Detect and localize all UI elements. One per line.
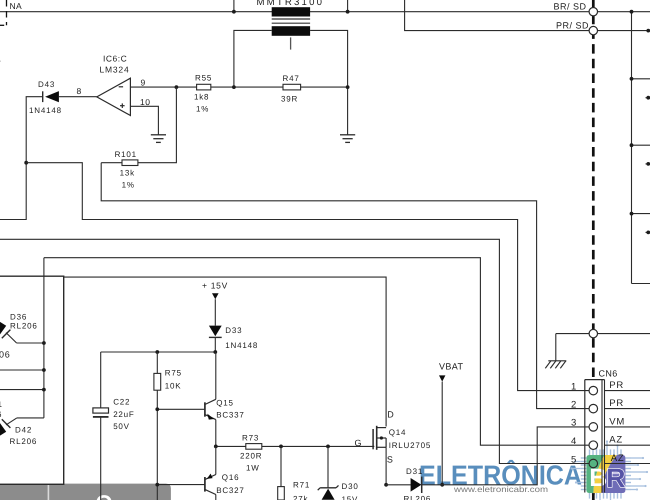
svg-text:10K: 10K bbox=[165, 381, 182, 390]
diode D42 RL206 (diagonal, clipped) bbox=[0, 421, 6, 439]
wire BR/SD horizontal top bbox=[0, 11, 650, 13]
dash below CN6 over logo bbox=[592, 493, 595, 500]
svg-text:1%: 1% bbox=[196, 104, 209, 113]
svg-text:1W: 1W bbox=[246, 463, 260, 472]
svg-text:R73: R73 bbox=[242, 433, 259, 442]
svg-text:1k8: 1k8 bbox=[194, 92, 209, 101]
connector circle BR/SD bbox=[589, 8, 597, 16]
wire net F: left edge loop (thick) bbox=[0, 276, 64, 484]
wire net C: R101 left to CN6 pin2 bbox=[101, 163, 589, 409]
zener diode D30 15V bbox=[327, 446, 329, 487]
svg-text:22uF: 22uF bbox=[113, 410, 134, 419]
svg-text:LM324: LM324 bbox=[100, 65, 130, 75]
wire D43 cathode down-left to left edge bbox=[0, 97, 43, 220]
svg-text:CN6: CN6 bbox=[599, 368, 618, 378]
svg-text:G: G bbox=[355, 438, 363, 448]
CN6 pin 1 circle bbox=[589, 386, 598, 395]
wire D33 node to C22 bbox=[101, 351, 216, 353]
resistor R47 39R bbox=[283, 84, 301, 90]
edge stubs with junction dots bbox=[646, 97, 650, 99]
transistor Q16 BC327 (PNP) bbox=[157, 484, 204, 486]
connector CN6 outline bbox=[584, 380, 586, 493]
svg-text:+ 15V: + 15V bbox=[202, 281, 228, 291]
svg-text:O: O bbox=[96, 491, 113, 500]
wire net E: diode column to CN6 pin4 bbox=[44, 258, 589, 446]
svg-text:5: 5 bbox=[571, 454, 576, 465]
CN6 pin 1 wire right bbox=[605, 390, 650, 392]
wire Q14 source to D31 line bbox=[385, 447, 387, 485]
svg-text:D30: D30 bbox=[342, 482, 359, 491]
svg-text:10: 10 bbox=[140, 97, 150, 107]
svg-text:8: 8 bbox=[77, 86, 82, 96]
wire op-amp pin10 to ground bbox=[130, 106, 158, 135]
svg-text:RL206: RL206 bbox=[10, 437, 38, 446]
MOSFET Q14 IRLU2705 bbox=[372, 429, 374, 449]
wire R55 to R47 bbox=[211, 86, 283, 88]
earth ground symbol bbox=[548, 360, 566, 362]
connector circle shield bbox=[589, 329, 597, 337]
wire R47 right to ground node bbox=[301, 86, 348, 88]
capacitor C22 22uF 50V bbox=[100, 352, 102, 408]
CN6 pin 3 wire right bbox=[605, 426, 650, 428]
svg-text:R55: R55 bbox=[195, 73, 212, 82]
svg-text:AZ: AZ bbox=[611, 453, 625, 464]
svg-text:R71: R71 bbox=[293, 480, 310, 489]
svg-text:R101: R101 bbox=[115, 150, 137, 159]
wire PR/SD from top bbox=[405, 0, 650, 31]
diode D31 RL206 bbox=[386, 484, 411, 486]
svg-text:220R: 220R bbox=[240, 451, 262, 460]
CN6 pin 3 circle bbox=[589, 423, 598, 432]
bus stub y=213.6 bbox=[632, 213, 650, 215]
svg-text:C22: C22 bbox=[113, 397, 130, 406]
ground (op-amp pin10) bbox=[151, 134, 166, 136]
svg-text:Q15: Q15 bbox=[216, 398, 234, 407]
diode D43 1N4148 bbox=[42, 91, 44, 102]
svg-text:A: A bbox=[0, 54, 1, 64]
svg-text:RL206: RL206 bbox=[10, 322, 38, 331]
node junctions top bbox=[232, 10, 236, 14]
wire D42 to column bbox=[17, 417, 44, 419]
svg-text:IC6:C: IC6:C bbox=[103, 54, 127, 64]
node dots on diode column bbox=[42, 341, 46, 345]
wire R101 left lead bbox=[101, 162, 122, 164]
svg-text:1N4148: 1N4148 bbox=[29, 106, 62, 115]
svg-text:9: 9 bbox=[141, 77, 146, 87]
transistor Q15 BC337 (NPN) bbox=[157, 408, 204, 410]
svg-text:AZ: AZ bbox=[609, 435, 623, 446]
svg-text:3: 3 bbox=[571, 418, 576, 429]
svg-text:MMTR3100: MMTR3100 bbox=[256, 0, 324, 8]
node feedback junction bbox=[24, 161, 28, 165]
svg-text:BC337: BC337 bbox=[216, 410, 244, 419]
wire R101 right riser to pin9 bbox=[138, 87, 177, 163]
svg-text:06: 06 bbox=[0, 349, 11, 359]
svg-text:15V: 15V bbox=[342, 495, 359, 500]
svg-text:D: D bbox=[387, 409, 394, 419]
CN6 pin 2 circle bbox=[589, 404, 598, 413]
ground (R47 / transformer secondary) bbox=[340, 134, 355, 136]
CN6 pin 2 wire right bbox=[605, 408, 650, 410]
svg-text:Q16: Q16 bbox=[222, 473, 240, 482]
svg-text:6: 6 bbox=[0, 410, 2, 419]
wire left-edge diode column bbox=[43, 258, 45, 418]
svg-text:27k: 27k bbox=[293, 495, 308, 500]
svg-text:39R: 39R bbox=[281, 94, 298, 103]
op-amp U1 IC6:C LM324 bbox=[97, 78, 131, 115]
svg-text:D31: D31 bbox=[406, 467, 423, 476]
svg-text:1N4148: 1N4148 bbox=[225, 341, 258, 350]
diode D33 1N4148 bbox=[209, 326, 222, 337]
wire stub from top at x=233.9 bbox=[233, 0, 235, 12]
NA dashed border top-left bbox=[6, 0, 8, 25]
svg-text:D43: D43 bbox=[38, 80, 55, 89]
svg-text:S: S bbox=[387, 454, 394, 464]
CN6 pin 5 wire right bbox=[605, 463, 650, 465]
svg-text:BR/ SD: BR/ SD bbox=[554, 1, 587, 11]
svg-text:4: 4 bbox=[571, 436, 576, 447]
wire net G: to Q14 drain bbox=[64, 277, 386, 426]
svg-text:Q14: Q14 bbox=[389, 428, 407, 437]
watermark gray box bbox=[0, 484, 171, 500]
svg-text:RL206: RL206 bbox=[404, 495, 432, 500]
wire shield junction to earth ground bbox=[556, 333, 650, 335]
wire secondary right to R47 node and ground bbox=[310, 30, 348, 134]
bus stub y=78.8 bbox=[632, 78, 650, 80]
bus stub y=283.5 bbox=[632, 283, 650, 285]
transformer T1 secondary winding bbox=[272, 26, 310, 36]
wire left edge y=389.6 bbox=[0, 389, 44, 391]
wire secondary left to R55 node bbox=[234, 30, 272, 87]
bus stub y=145.2 bbox=[632, 144, 650, 146]
svg-text:2: 2 bbox=[571, 399, 576, 410]
svg-text:50V: 50V bbox=[113, 422, 130, 431]
svg-text:D36: D36 bbox=[10, 312, 27, 321]
resistor R101 13k bbox=[122, 160, 138, 166]
wire net B: feedback node to CN6 pin1 bbox=[26, 163, 589, 391]
svg-text:VM: VM bbox=[609, 416, 625, 427]
svg-text:D42: D42 bbox=[15, 426, 32, 435]
transformer T1 primary winding bbox=[272, 7, 310, 16]
wire left edge y=370 bbox=[0, 369, 44, 371]
transformer T1 center tap stub bbox=[290, 37, 292, 49]
svg-text:PR: PR bbox=[609, 398, 624, 409]
svg-text:1%: 1% bbox=[122, 180, 135, 189]
wire D43 anode to op-amp pin8 bbox=[59, 96, 97, 98]
resistor R73 220R 1W bbox=[246, 444, 262, 450]
cable boundary dashed line bbox=[592, 0, 595, 500]
diode D36 RL206 (diagonal, clipped) bbox=[0, 319, 6, 337]
wire op-amp pin9 output to R55 bbox=[130, 86, 196, 88]
svg-text:R: R bbox=[606, 463, 625, 493]
resistor R55 1k8 bbox=[197, 84, 211, 90]
CN6 pin 4 circle bbox=[589, 441, 598, 450]
svg-text:NA: NA bbox=[10, 1, 23, 11]
svg-text:PR: PR bbox=[609, 380, 624, 391]
svg-text:R75: R75 bbox=[165, 369, 182, 378]
svg-text:BC327: BC327 bbox=[216, 486, 244, 495]
svg-text:1: 1 bbox=[0, 400, 3, 409]
watermark BR chip logo bbox=[570, 440, 648, 500]
svg-text:www.eletronicabr.com: www.eletronicabr.com bbox=[453, 485, 548, 494]
wire net D: left edge to CN6 pin5 bbox=[0, 239, 589, 463]
svg-text:PR/ SD: PR/ SD bbox=[556, 20, 589, 30]
svg-text:VBAT: VBAT bbox=[439, 361, 464, 371]
wire gate line with R73 bbox=[216, 445, 246, 447]
svg-text:1: 1 bbox=[571, 381, 576, 392]
svg-text:D33: D33 bbox=[225, 326, 242, 335]
resistor R71 27k bbox=[280, 446, 282, 486]
CN6 pin 5 circle bbox=[589, 459, 598, 468]
svg-text:13k: 13k bbox=[120, 168, 135, 177]
right-edge bus vertical bbox=[631, 12, 633, 284]
wire stub from top at x=347.6 bbox=[347, 0, 349, 12]
resistor R75 10K bbox=[156, 352, 158, 373]
svg-text:R47: R47 bbox=[283, 74, 300, 83]
transformer T1 core bbox=[272, 18, 310, 20]
CN6 pin 4 wire right bbox=[605, 444, 650, 446]
wire D31 to CN6 pin3 bbox=[422, 427, 590, 485]
svg-text:IRLU2705: IRLU2705 bbox=[389, 441, 431, 450]
connector circle PR/SD bbox=[589, 26, 597, 34]
